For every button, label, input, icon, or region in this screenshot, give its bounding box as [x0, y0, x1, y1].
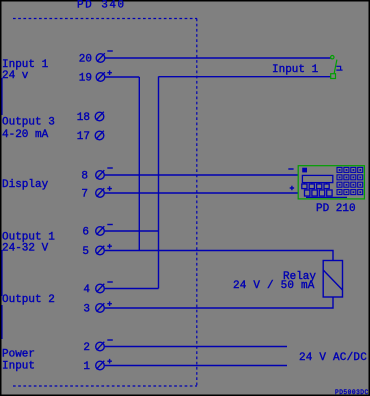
svg-text:6: 6: [82, 226, 89, 238]
wire terminal 4 to V2: [105, 288, 159, 290]
PD 210 terminal signs: [288, 169, 294, 190]
wire terminal 8 to PD210 minus: [105, 174, 298, 176]
PD210 display window: [302, 175, 332, 182]
terminal 20: [96, 53, 105, 62]
svg-text:17: 17: [77, 131, 90, 143]
switch bottom contact square: [331, 74, 336, 79]
terminal 6: [96, 226, 105, 235]
svg-text:24 v: 24 v: [2, 70, 29, 82]
wire vertical V1 (19 down to 5): [138, 77, 140, 251]
plus at terminal 19: [107, 70, 112, 75]
PD210 keypad 4x4: [337, 167, 363, 194]
relay K1: [323, 261, 342, 298]
wire terminal 1 (power +): [105, 365, 287, 367]
PD 340 dashed boundary: top edge: [13, 18, 197, 20]
svg-text:Output 2: Output 2: [2, 294, 55, 306]
switch lever: [334, 60, 337, 74]
svg-text:24 V / 50 mA: 24 V / 50 mA: [233, 280, 315, 292]
wire vertical V2 (down to 4): [158, 77, 160, 289]
wire switch square to vertical V2: [159, 76, 331, 78]
svg-text:7: 7: [81, 188, 88, 200]
svg-text:Display: Display: [2, 179, 49, 191]
PD210 key row 1: [302, 184, 307, 189]
plus at terminal 3: [107, 301, 112, 306]
wire terminal 20 to switch circle: [105, 57, 331, 59]
terminal circles (with slash): [95, 53, 105, 370]
PD210 indicator LED: [302, 168, 307, 173]
label Input 1 / 24 v: [2, 59, 49, 82]
terminal 5: [96, 246, 105, 255]
svg-text:Input 1: Input 1: [272, 64, 319, 76]
wire terminal 5 to relay top: [105, 251, 333, 261]
PD210 key row 2: [305, 190, 310, 196]
svg-text:PD5003DC: PD5003DC: [335, 389, 369, 396]
svg-text:24 V AC/DC: 24 V AC/DC: [299, 352, 367, 364]
plus at terminal 1: [107, 359, 112, 364]
wire terminal 6 to V2: [105, 230, 159, 232]
svg-text:24-32 V: 24-32 V: [2, 243, 49, 255]
PD 340 boundary left edge segment 3: [1, 305, 3, 339]
plus at PD210: [290, 186, 294, 190]
plus at terminal 5: [107, 244, 112, 249]
svg-text:PD 340: PD 340: [77, 0, 126, 12]
svg-text:PD 210: PD 210: [316, 203, 356, 215]
svg-text:Input: Input: [2, 361, 35, 373]
terminal 7: [96, 188, 105, 197]
PD 340 dashed boundary: bottom edge: [13, 385, 197, 387]
svg-text:Power: Power: [2, 349, 35, 361]
label Output 3 / 4-20 mA: [2, 117, 55, 142]
terminal 17: [95, 131, 104, 140]
minus at PD210: [288, 168, 293, 170]
wire terminal 3 to relay bottom: [105, 297, 333, 308]
svg-text:4-20 mA: 4-20 mA: [2, 129, 49, 141]
terminal 2: [96, 342, 105, 351]
label Output 1 / 24-32 V: [2, 232, 55, 255]
terminal 1: [96, 361, 105, 370]
minus at terminal 20: [107, 50, 113, 52]
svg-text:20: 20: [79, 53, 92, 65]
switch actuator paddle (blue bracket): [336, 66, 342, 70]
svg-text:3: 3: [83, 303, 90, 315]
terminal 8: [96, 170, 105, 179]
minus at terminal 2: [107, 339, 113, 341]
terminal 3: [96, 303, 105, 312]
minus at terminal 8: [107, 167, 113, 169]
wire terminal 2 (power -): [105, 346, 287, 348]
svg-text:2: 2: [83, 342, 90, 354]
polarity signs: [107, 51, 113, 364]
minus at terminal 4: [107, 281, 113, 283]
svg-text:4: 4: [83, 284, 90, 296]
wire terminal 19 to vertical V1: [105, 76, 140, 78]
wire terminal 7 to PD210 plus: [105, 192, 298, 194]
terminal 4: [96, 284, 105, 293]
plus at terminal 7: [107, 186, 112, 191]
svg-text:Output 3: Output 3: [2, 117, 55, 129]
PD 340 boundary left edge segment 1: [1, 78, 3, 115]
svg-text:8: 8: [81, 170, 88, 182]
svg-text:1: 1: [83, 361, 90, 373]
PD 340 dashed boundary: right edge: [196, 19, 198, 387]
terminal 19: [96, 72, 105, 81]
PD210 bottom line: [306, 196, 347, 198]
minus at terminal 6: [107, 224, 113, 226]
PD 210 unit (green box): [298, 166, 364, 199]
svg-text:18: 18: [77, 112, 90, 124]
switch top contact circle: [331, 56, 334, 59]
flow switch (green): [331, 56, 337, 79]
PD 340 boundary left edge segment 2: [1, 250, 3, 296]
terminal 18: [95, 112, 104, 121]
svg-text:5: 5: [82, 246, 89, 258]
svg-text:19: 19: [79, 72, 92, 84]
label Power Input: [2, 349, 35, 373]
